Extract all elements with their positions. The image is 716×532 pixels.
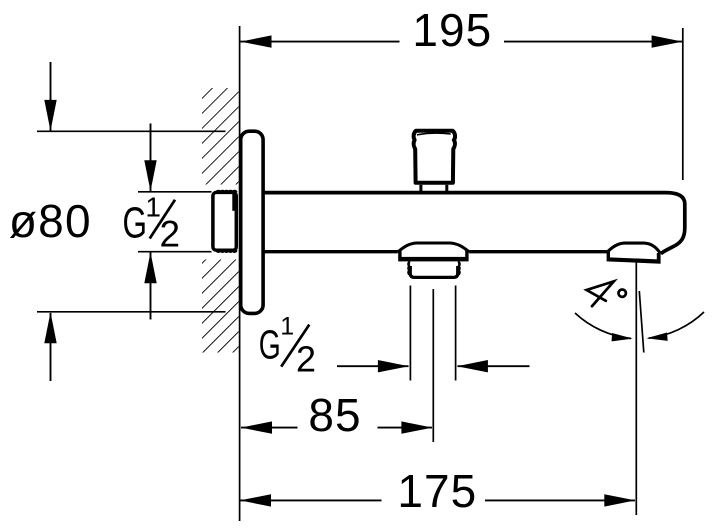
svg-text:1: 1 xyxy=(280,313,294,341)
svg-text:G: G xyxy=(259,322,281,368)
svg-text:85: 85 xyxy=(308,389,361,441)
svg-text:G: G xyxy=(123,199,148,248)
svg-text:2: 2 xyxy=(296,339,316,380)
svg-text:175: 175 xyxy=(397,465,477,517)
svg-text:ø80: ø80 xyxy=(9,195,92,247)
svg-text:195: 195 xyxy=(412,4,492,56)
